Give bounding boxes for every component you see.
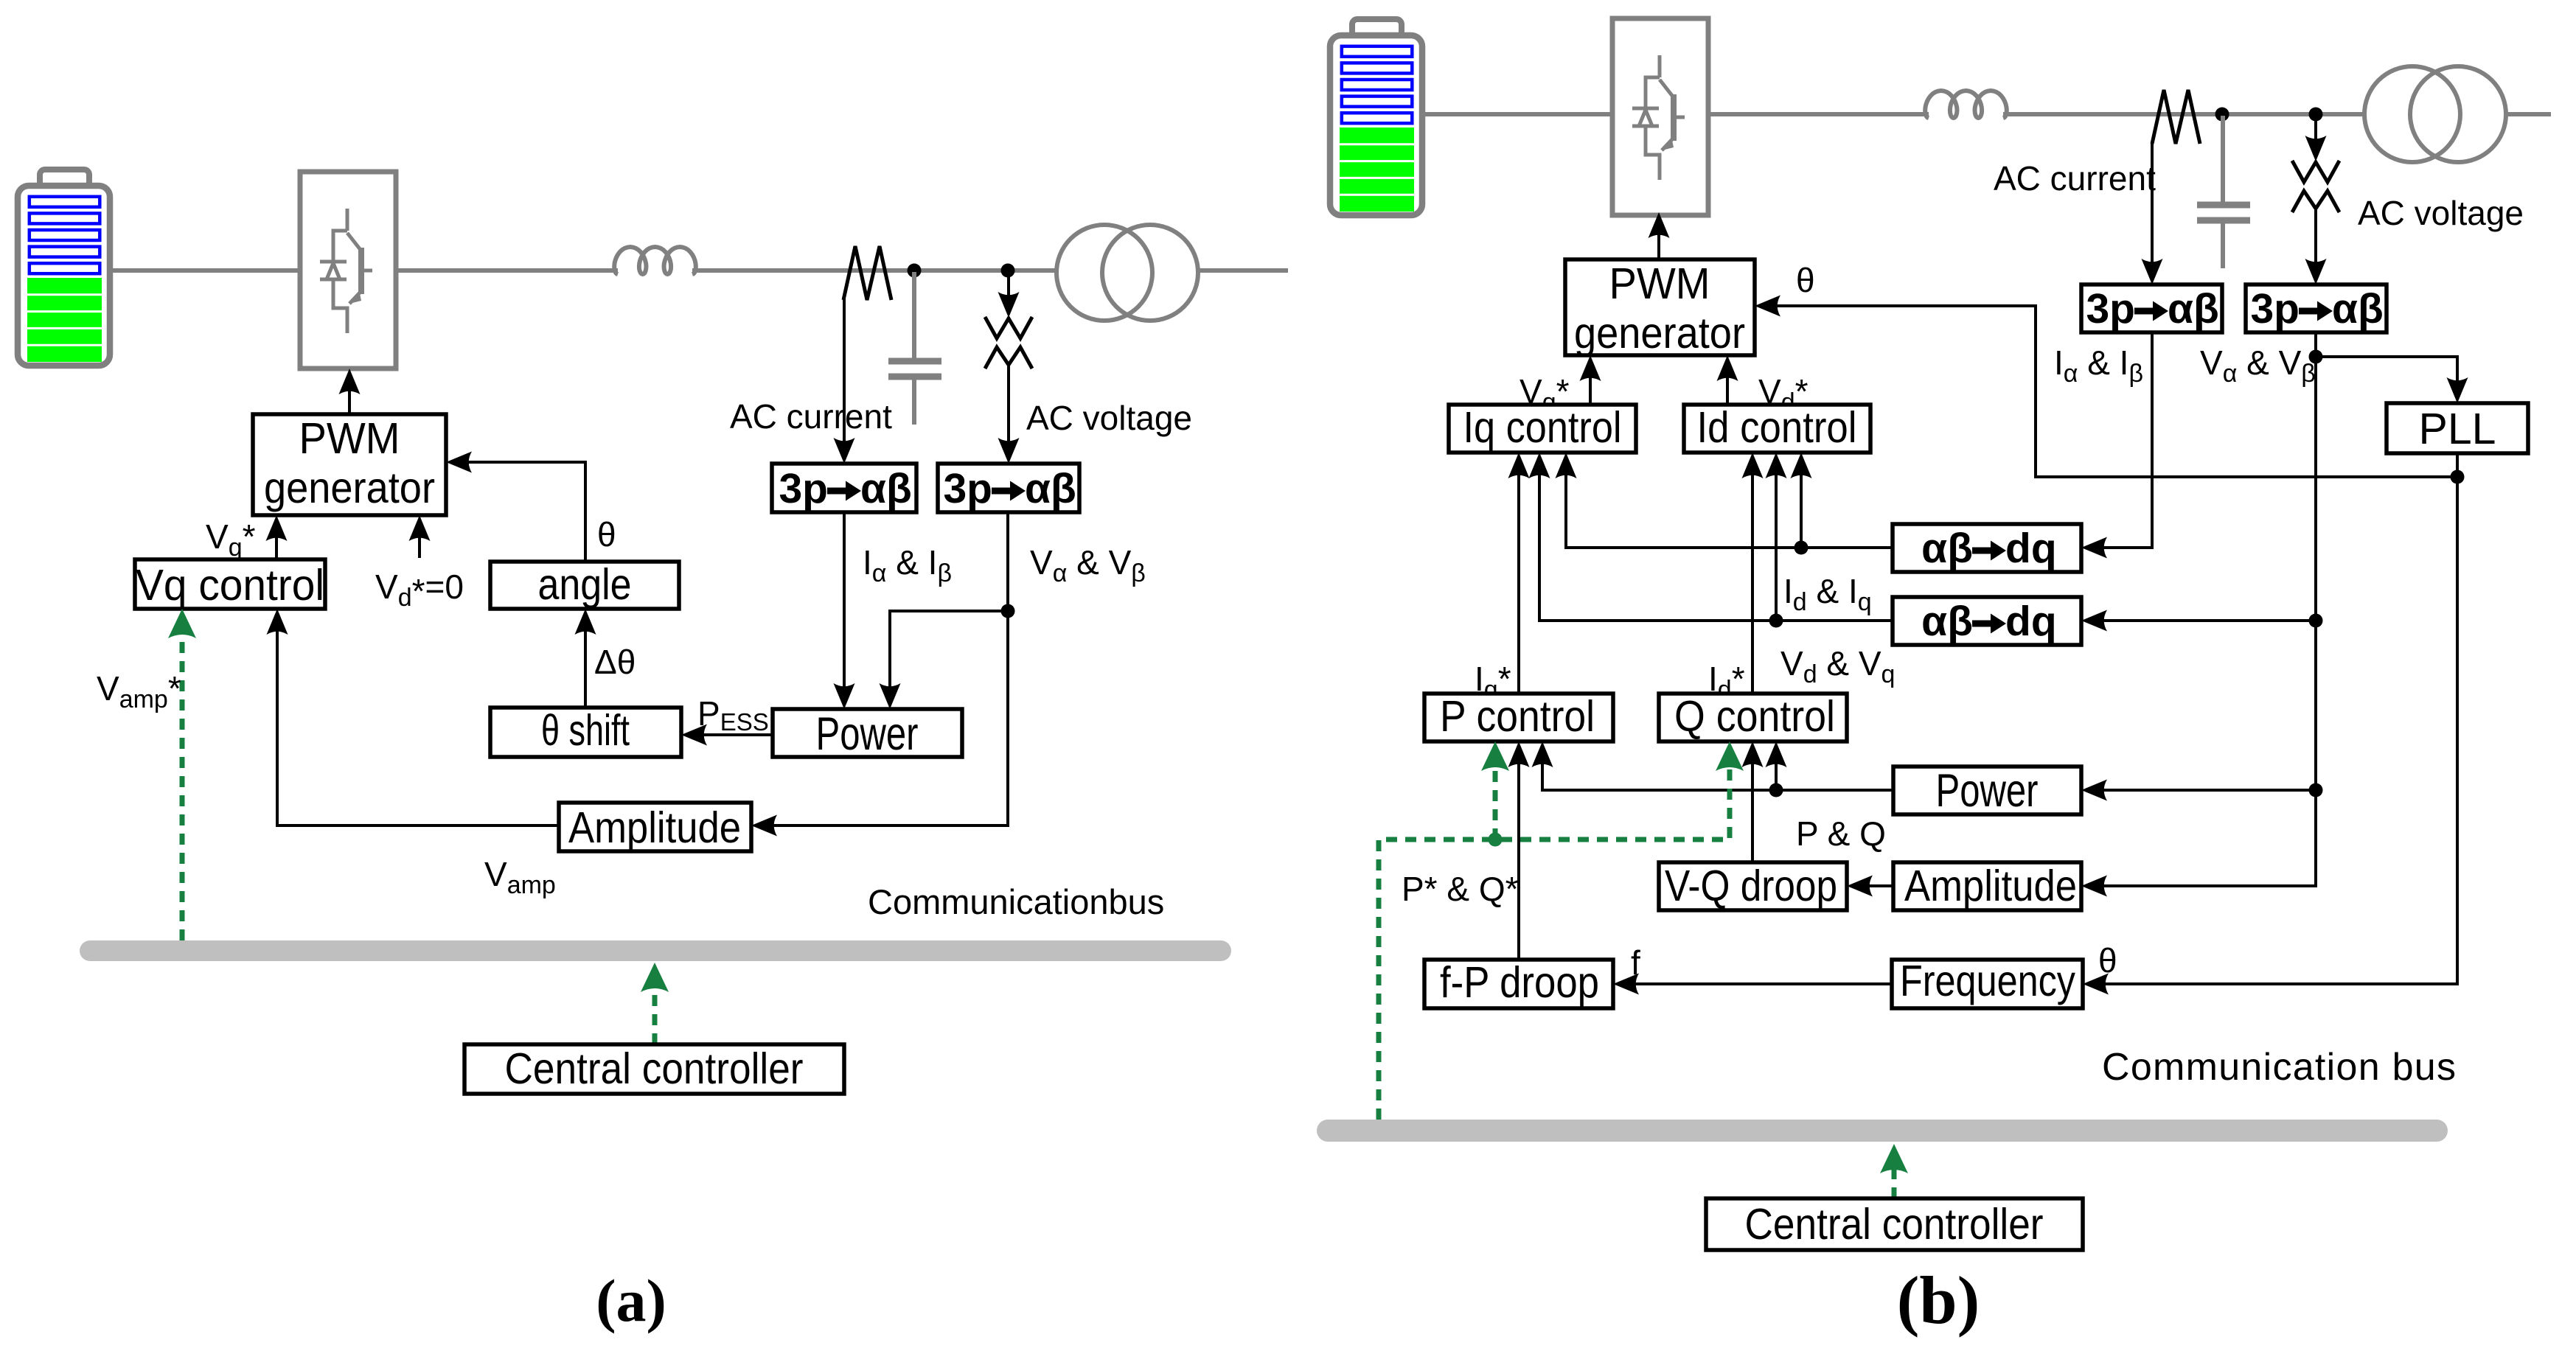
wire: PWM generator to converter gate (b) <box>1657 216 1660 259</box>
wire: transformer to grid end (b) <box>2506 112 2551 116</box>
wire: converter to coil <box>396 268 618 273</box>
svg-text:Vd & Vq: Vd & Vq <box>1780 644 1895 688</box>
wire: Amplitude output Vamp to Vq control <box>277 612 559 825</box>
wire: V-Q droop to Q control <box>1751 745 1754 862</box>
box theta shift <box>490 708 681 757</box>
svg-text:angle: angle <box>538 560 632 609</box>
wire: AC current sense (b) <box>2151 142 2154 281</box>
box ab-dq 1 <box>1893 524 2081 572</box>
communication bus (a) <box>90 940 1221 961</box>
wire: branch to PLL <box>2316 357 2457 399</box>
wire: voltage sense to 3p-ab (b) <box>2314 210 2317 281</box>
box Power (a) <box>773 709 962 757</box>
green dashed branch to P control <box>1493 767 1498 839</box>
svg-text:θ shift: θ shift <box>541 706 630 755</box>
svg-text:Iα & Iβ: Iα & Iβ <box>2054 343 2143 388</box>
svg-text:αβ: αβ <box>1025 465 1076 512</box>
wire: coil to transformer <box>692 268 1056 273</box>
svg-text:P control: P control <box>1440 692 1595 741</box>
node N9 (Power b branch) <box>2309 783 2323 797</box>
svg-text:3p: 3p <box>2250 285 2300 332</box>
node N10 <box>1795 541 1809 555</box>
svg-text:f: f <box>1631 943 1640 982</box>
svg-text:αβ: αβ <box>860 465 912 512</box>
node N12 <box>1769 783 1783 797</box>
wire: Vq* into PWM (b) <box>1589 359 1592 405</box>
box Power (b) <box>1893 767 2081 814</box>
box Id control <box>1684 405 1870 453</box>
svg-text:Vq*: Vq* <box>206 517 256 562</box>
svg-text:Vα & Vβ: Vα & Vβ <box>2200 343 2316 388</box>
node N4 (capacitor tap b) <box>2215 108 2229 122</box>
svg-text:generator: generator <box>1574 309 1745 357</box>
svg-text:3p: 3p <box>2086 285 2135 332</box>
wire: branch from N3 to Power second input <box>890 611 1008 705</box>
node N11 <box>1769 614 1783 628</box>
capacitor C2 <box>2197 116 2250 268</box>
box V-Q droop <box>1659 862 1847 910</box>
box 3p-alphabeta current (b) <box>2081 284 2222 332</box>
wire: Vd* into PWM (b) <box>1726 359 1729 405</box>
node N6 (PLL branch) <box>2309 350 2323 364</box>
svg-text:Iα & Iβ: Iα & Iβ <box>863 543 952 587</box>
box P control <box>1424 694 1613 741</box>
box ab-dq 2 <box>1893 597 2081 645</box>
box f-P droop <box>1424 960 1613 1008</box>
svg-text:Communication bus: Communication bus <box>2102 1046 2456 1089</box>
svg-text:αβ: αβ <box>1921 598 1973 645</box>
box Central controller (a) <box>464 1044 844 1094</box>
svg-text:Iq control: Iq control <box>1463 403 1622 452</box>
wire: battery to converter (b) <box>1422 112 1613 116</box>
transformer T1 <box>1056 225 1198 321</box>
svg-text:Id control: Id control <box>1697 403 1857 452</box>
svg-text:V-Q droop: V-Q droop <box>1665 862 1837 910</box>
wire: f from Frequency to f-P droop <box>1617 982 1892 985</box>
svg-text:AC voltage: AC voltage <box>1026 399 1192 437</box>
wire: PESS from Power to theta shift <box>685 733 773 736</box>
svg-text:3p: 3p <box>779 465 828 512</box>
svg-text:AC current: AC current <box>1994 159 2156 198</box>
green dashed P*&Q* distribution <box>1379 767 1730 1120</box>
green node N13 <box>1489 833 1503 847</box>
node N2 (voltage tap) <box>1001 264 1015 278</box>
inductor L2 <box>1925 91 2007 118</box>
wire: AC current sense to 3p-ab <box>843 298 846 460</box>
wire: Ialpha to ab-dq 1 <box>2085 332 2152 548</box>
battery BAT1 <box>18 170 110 366</box>
svg-text:Amplitude: Amplitude <box>568 803 741 852</box>
svg-text:Communicationbus: Communicationbus <box>868 882 1164 921</box>
wire: branch up to Id control <box>1800 456 1803 548</box>
svg-text:Vamp*: Vamp* <box>97 669 181 713</box>
svg-text:AC voltage: AC voltage <box>2358 194 2524 232</box>
box PWM generator (b) <box>1565 259 1755 355</box>
svg-text:Amplitude: Amplitude <box>1904 862 2077 910</box>
wire: Id* from Q control to Id control <box>1751 456 1754 694</box>
wire: Vd&Vq output to Iq control and Id control <box>1539 456 1893 621</box>
current sensor zigzag CT1 <box>843 246 891 300</box>
box Amplitude (a) <box>559 803 751 851</box>
wire: branch up to Q control (P&Q) <box>1775 745 1778 790</box>
svg-text:generator: generator <box>264 464 435 512</box>
svg-text:PWM: PWM <box>1609 259 1710 308</box>
svg-text:P & Q: P & Q <box>1796 814 1886 853</box>
svg-text:3p: 3p <box>943 465 992 512</box>
svg-text:Vd*=0: Vd*=0 <box>375 568 464 612</box>
voltage sensor VT2 <box>2292 118 2339 212</box>
svg-text:Vα & Vβ: Vα & Vβ <box>1030 543 1146 587</box>
wire: Vd*=0 into PWM generator <box>418 519 421 558</box>
svg-text:Central controller: Central controller <box>505 1044 804 1093</box>
svg-text:f-P droop: f-P droop <box>1440 958 1599 1007</box>
wire: PWM generator to converter gate <box>348 372 351 414</box>
node N7 (theta junction) <box>2451 470 2465 484</box>
wire: P&Q from Power (b) to P control <box>1542 745 1893 790</box>
svg-text:Δθ: Δθ <box>594 643 636 681</box>
converter (IGBT bridge) U2 <box>1612 18 1708 215</box>
svg-text:AC current: AC current <box>730 397 892 436</box>
svg-text:Id & Iq: Id & Iq <box>1783 572 1872 616</box>
wire: PLL theta down to Frequency <box>2086 453 2457 984</box>
box angle <box>490 562 679 609</box>
wire: converter to coil (b) <box>1707 112 1929 116</box>
svg-text:θ: θ <box>2098 941 2117 980</box>
wire: theta from PLL into PWM generator (b) <box>1758 306 2457 477</box>
svg-text:θ: θ <box>1796 261 1815 299</box>
wire: branch into ab-dq 2 <box>2085 619 2316 622</box>
wire: Id&Iq output to Iq control and Id control <box>1566 456 1893 548</box>
wire: Amplitude (b) to V-Q droop <box>1851 884 1893 887</box>
svg-text:Frequency: Frequency <box>1900 957 2075 1005</box>
inductor L1 <box>614 247 696 274</box>
svg-text:αβ: αβ <box>2332 285 2384 332</box>
green dashed wire from Central controller to bus (a) <box>652 988 658 1044</box>
svg-text:Central controller: Central controller <box>1745 1200 2044 1249</box>
svg-text:P* & Q*: P* & Q* <box>1402 870 1519 908</box>
box Iq control <box>1449 405 1636 453</box>
svg-text:dq: dq <box>2005 525 2057 572</box>
svg-text:Q control: Q control <box>1674 692 1835 741</box>
transformer T2 <box>2364 66 2506 162</box>
wire: Iq* from P control to Iq control <box>1517 456 1520 694</box>
wire: transformer to grid end <box>1198 268 1288 273</box>
svg-text:PESS: PESS <box>697 694 769 736</box>
svg-text:Vamp: Vamp <box>484 855 556 899</box>
box 3p-alphabeta current (a) <box>772 464 916 512</box>
svg-text:PLL: PLL <box>2419 405 2496 453</box>
green dashed wire Vamp* from bus to Vq control <box>180 634 185 940</box>
node N1 (capacitor tap) <box>908 264 922 278</box>
wire: Valpha down the right side <box>2085 332 2316 886</box>
battery BAT2 <box>1330 19 1422 215</box>
box 3p-alphabeta voltage (b) <box>2246 284 2387 332</box>
svg-text:θ: θ <box>597 515 616 554</box>
svg-text:(a): (a) <box>596 1267 666 1334</box>
svg-text:αβ: αβ <box>2168 285 2219 332</box>
communication bus (b) <box>1328 1120 2437 1142</box>
green dashed from Central controller (b) to bus <box>1892 1169 1897 1198</box>
wire: Ialpha Ibeta to Power <box>843 512 846 705</box>
wire: branch into Power (b) <box>2085 789 2316 792</box>
node N3 on Valpha line <box>1001 604 1015 618</box>
box PWM generator (a) <box>253 414 446 515</box>
capacitor C1 <box>888 272 941 425</box>
svg-text:Vq control: Vq control <box>136 561 324 610</box>
box Q control <box>1659 694 1847 741</box>
box PLL <box>2387 403 2528 453</box>
wire: delta-theta from theta-shift to angle <box>584 612 587 708</box>
node N5 (voltage tap b) <box>2309 108 2323 122</box>
svg-text:αβ: αβ <box>1921 525 1973 572</box>
current sensor zigzag CT2 <box>2152 90 2200 144</box>
wire: voltage sense to 3p-ab (a) <box>1007 366 1010 460</box>
node N8 (ab-dq2 branch) <box>2309 614 2323 628</box>
wire: Vq* into PWM generator <box>275 519 278 559</box>
svg-text:(b): (b) <box>1897 1263 1980 1338</box>
svg-text:Power: Power <box>816 708 919 760</box>
wire: theta from angle to PWM generator <box>450 462 585 562</box>
svg-text:PWM: PWM <box>299 414 400 463</box>
box 3p-alphabeta voltage (a) <box>938 464 1079 512</box>
converter (IGBT bridge) U1 <box>300 172 396 369</box>
voltage sensor VT1 <box>985 274 1032 369</box>
box Vq control <box>135 559 325 609</box>
box Amplitude (b) <box>1893 862 2081 910</box>
wire: branch up to Id control (Vd&Vq) <box>1775 456 1778 621</box>
box Frequency <box>1892 960 2083 1008</box>
wire: Valpha Vbeta down and into Amplitude <box>755 512 1008 825</box>
wire: f-P droop to P control <box>1517 745 1520 960</box>
box Central controller (b) <box>1706 1198 2083 1250</box>
svg-text:Power: Power <box>1936 765 2039 817</box>
svg-text:dq: dq <box>2005 598 2057 645</box>
wire: battery to converter (gray dc link) <box>110 268 300 273</box>
wire: coil to transformer (b) <box>2003 112 2366 116</box>
